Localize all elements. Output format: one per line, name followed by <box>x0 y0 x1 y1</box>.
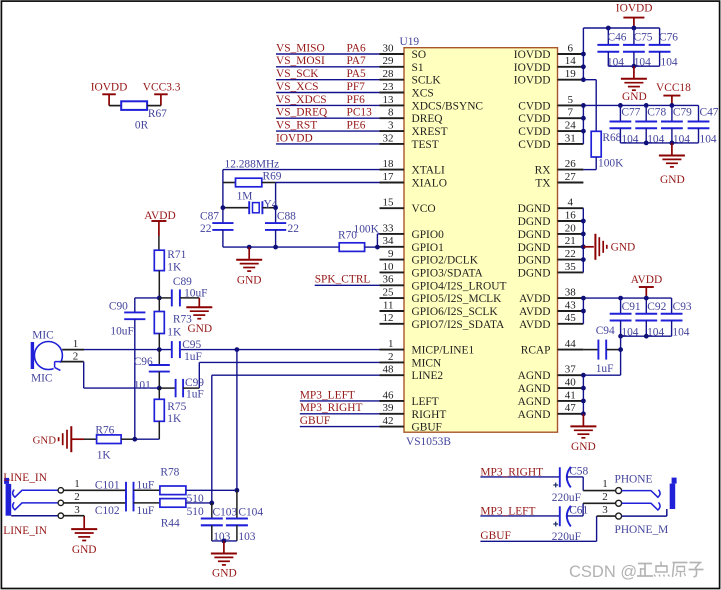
svg-text:100K: 100K <box>598 158 624 170</box>
svg-text:100K: 100K <box>354 224 380 236</box>
junction DGND row 15 <box>581 244 586 249</box>
svg-text:3: 3 <box>602 504 608 516</box>
svg-text:GPIO5/I2S_MCLK: GPIO5/I2S_MCLK <box>412 293 503 305</box>
wire MICN to chip <box>199 362 379 388</box>
svg-text:46: 46 <box>383 389 395 401</box>
svg-text:R68: R68 <box>602 132 621 144</box>
pin 1 LINE_IN <box>58 478 126 493</box>
svg-text:VCO: VCO <box>412 203 436 215</box>
svg-text:10: 10 <box>383 261 395 273</box>
pin 44 RCAP (right) <box>521 338 584 357</box>
pin 9 GPIO2/DCLK (left) <box>380 248 479 267</box>
svg-text:C90: C90 <box>109 301 128 313</box>
wire AVDD cap ground rail <box>621 335 672 337</box>
wire MICN from mic pin2 <box>84 362 160 389</box>
svg-text:IOVDD: IOVDD <box>276 132 313 144</box>
svg-text:C92: C92 <box>647 301 666 313</box>
svg-text:VS_XCS: VS_XCS <box>276 81 318 93</box>
svg-text:GND: GND <box>660 174 685 186</box>
svg-text:1: 1 <box>74 478 80 490</box>
resistor R67 <box>109 101 167 131</box>
wire GBUF to phone pin3 <box>597 516 616 541</box>
pin 10 GPIO3/SDATA (left) <box>380 261 484 280</box>
svg-text:IOVDD: IOVDD <box>514 75 551 87</box>
svg-text:XIALO: XIALO <box>412 178 447 190</box>
svg-text:GND: GND <box>72 544 97 556</box>
ground CVDD caps <box>659 143 685 186</box>
svg-text:MIC: MIC <box>32 330 54 342</box>
capacitor C77 <box>610 105 641 145</box>
svg-text:37: 37 <box>565 364 577 376</box>
capacitor C61 (polarized) <box>552 505 589 543</box>
pin 27 TX (right) <box>535 171 583 190</box>
capacitor C88 <box>265 210 299 247</box>
svg-text:33: 33 <box>383 222 395 234</box>
power port AVDD (right) <box>631 274 662 298</box>
wire / net label MP3_RIGHT (phone) <box>480 466 559 478</box>
svg-text:C95: C95 <box>182 339 201 351</box>
svg-text:2: 2 <box>602 491 608 503</box>
svg-text:38: 38 <box>565 287 577 299</box>
wire DGND bus <box>582 208 584 272</box>
svg-text:S1: S1 <box>412 62 424 74</box>
svg-text:GPIO0: GPIO0 <box>412 229 445 241</box>
pin 13 XDCS/BSYNC (left) <box>380 94 484 113</box>
junction AVDD pin38 <box>581 296 586 301</box>
svg-text:RIGHT: RIGHT <box>412 409 447 421</box>
pin 29 S1 (left) <box>380 55 424 74</box>
junction DGND row 16 <box>581 257 586 262</box>
svg-text:45: 45 <box>565 312 577 324</box>
resistor R70 <box>338 224 380 252</box>
wire C58 to phone pin1 <box>567 477 616 491</box>
svg-text:C75: C75 <box>634 31 653 43</box>
crystal Y4 <box>223 199 278 215</box>
svg-text:14: 14 <box>565 55 577 67</box>
pin 33 GPIO0 (left) <box>380 222 445 241</box>
pin 46 LEFT (left) <box>380 389 439 408</box>
svg-text:XCS: XCS <box>412 88 434 100</box>
svg-text:GND: GND <box>622 91 647 103</box>
svg-text:8: 8 <box>388 107 394 119</box>
wire / net label SPK_CTRL <box>315 274 380 286</box>
capacitor C102 <box>95 494 160 517</box>
svg-text:AVDD: AVDD <box>519 319 550 331</box>
svg-text:CVDD: CVDD <box>518 100 550 112</box>
pin 22 DGND (right) <box>518 248 584 267</box>
svg-text:42: 42 <box>383 415 394 427</box>
pin 26 RX (right) <box>535 158 584 177</box>
junction CVDD pin5 <box>581 103 586 108</box>
junction IOVDD pin19 <box>581 77 586 82</box>
junction CVDD pin24 <box>581 129 586 134</box>
junction cap rail C79 bottom <box>670 141 675 146</box>
svg-text:C104: C104 <box>238 507 263 519</box>
junction crystal rail C88 <box>273 245 278 250</box>
junction DGND row 14 <box>581 232 586 237</box>
capacitor C87 <box>200 210 234 247</box>
wire CVDD rail <box>583 105 698 143</box>
pin 34 GPIO1 (left) <box>380 235 445 254</box>
svg-text:1K: 1K <box>167 413 182 425</box>
svg-text:510: 510 <box>187 506 204 518</box>
svg-text:1uF: 1uF <box>184 351 202 363</box>
junction AGND row 25 <box>581 373 586 378</box>
svg-text:GND: GND <box>571 441 596 453</box>
svg-text:VS_SCK: VS_SCK <box>276 68 319 80</box>
ground C89 <box>186 298 212 335</box>
U19 designator <box>400 36 420 48</box>
svg-text:VS_XDCS: VS_XDCS <box>276 94 327 106</box>
svg-text:DGND: DGND <box>518 267 551 279</box>
pin 16 DGND (right) <box>518 209 584 228</box>
svg-text:VS1053B: VS1053B <box>406 436 451 448</box>
junction MICN node <box>157 386 162 391</box>
svg-text:CVDD: CVDD <box>518 126 550 138</box>
svg-text:VS_MISO: VS_MISO <box>276 42 325 54</box>
svg-text:PHONE_M: PHONE_M <box>615 524 669 536</box>
svg-text:GPIO7/I2S_SDATA: GPIO7/I2S_SDATA <box>412 319 506 331</box>
svg-text:5: 5 <box>568 94 574 106</box>
svg-text:XREST: XREST <box>412 126 448 138</box>
svg-text:AGND: AGND <box>518 383 551 395</box>
capacitor C94 <box>583 325 620 375</box>
svg-text:12.288MHz: 12.288MHz <box>225 159 280 171</box>
svg-text:3: 3 <box>74 504 80 516</box>
junction line2 branch <box>209 501 214 506</box>
pin 2 LINE_IN <box>58 491 126 506</box>
wire MICP from mic <box>84 349 380 351</box>
svg-text:MIC: MIC <box>31 373 53 385</box>
svg-text:R75: R75 <box>167 401 186 413</box>
svg-text:IOVDD: IOVDD <box>514 49 551 61</box>
pin 2 MIC <box>61 350 84 362</box>
capacitor C78 <box>635 105 666 145</box>
svg-text:GPIO3/SDATA: GPIO3/SDATA <box>412 267 484 279</box>
svg-text:SPK_CTRL: SPK_CTRL <box>315 274 371 286</box>
ground line filter <box>211 541 237 580</box>
svg-text:1: 1 <box>388 338 394 350</box>
svg-text:RX: RX <box>535 165 552 177</box>
svg-text:AVDD: AVDD <box>519 306 550 318</box>
svg-text:PA7: PA7 <box>347 55 367 67</box>
resistor R75 <box>154 388 186 439</box>
svg-text:XDCS/BSYNC: XDCS/BSYNC <box>412 100 484 112</box>
svg-text:RCAP: RCAP <box>521 345 551 357</box>
pin 41 AGND (right) <box>518 389 584 408</box>
pin 38 AVDD (right) <box>519 287 583 306</box>
wire IOVDD cap ground rail <box>608 65 659 67</box>
svg-text:GND: GND <box>611 241 636 253</box>
capacitor C92 <box>635 298 666 338</box>
svg-text:40: 40 <box>565 377 577 389</box>
svg-text:C89: C89 <box>173 276 192 288</box>
svg-text:C46: C46 <box>608 31 627 43</box>
svg-text:MP3_LEFT: MP3_LEFT <box>300 389 355 401</box>
svg-text:DGND: DGND <box>518 216 551 228</box>
pin 32 TEST (left) <box>380 132 439 151</box>
junction rail C46 <box>606 26 611 31</box>
svg-text:2: 2 <box>388 351 394 363</box>
svg-text:MICP/LINE1: MICP/LINE1 <box>412 345 475 357</box>
wire R68 to RX <box>583 157 596 170</box>
svg-text:AVDD: AVDD <box>631 274 662 286</box>
junction crystal left <box>221 205 226 210</box>
resistor R71 <box>154 249 186 274</box>
svg-text:VS_MOSI: VS_MOSI <box>276 55 325 67</box>
svg-text:101: 101 <box>134 379 151 391</box>
svg-text:C103: C103 <box>213 507 238 519</box>
svg-text:LINE_IN: LINE_IN <box>3 525 47 537</box>
wire node to C90 <box>135 297 160 299</box>
svg-text:SO: SO <box>412 49 427 61</box>
junction AVDD pin43 <box>581 309 586 314</box>
svg-text:GND: GND <box>33 435 57 447</box>
svg-text:22: 22 <box>288 223 300 235</box>
wire AVDD rail <box>583 298 671 324</box>
svg-text:1K: 1K <box>167 326 182 338</box>
svg-text:1K: 1K <box>167 261 182 273</box>
svg-text:GBUF: GBUF <box>300 415 330 427</box>
resistor R44 <box>160 499 204 530</box>
pin 48 LINE2 (left) <box>380 364 444 383</box>
wire / net label VS_MISO <box>276 42 380 54</box>
svg-text:LINE_IN: LINE_IN <box>3 472 47 484</box>
junction MICP at R73/C95 <box>157 347 162 352</box>
wire XTALI net <box>223 169 380 171</box>
svg-text:3: 3 <box>388 120 394 132</box>
pin 37 AGND (right) <box>518 364 584 383</box>
svg-text:15: 15 <box>383 197 395 209</box>
wire / net label VS_DREQ <box>276 107 380 119</box>
pin 15 VCO (left) <box>380 197 436 216</box>
pin 39 RIGHT (left) <box>380 402 447 421</box>
svg-text:PE6: PE6 <box>347 120 366 132</box>
pin 35 DGND (right) <box>518 261 584 280</box>
svg-text:35: 35 <box>565 261 577 273</box>
IC U19 VS1053B body <box>404 48 558 433</box>
wire R76 to R75 <box>135 438 160 440</box>
capacitor C76 <box>649 28 679 68</box>
junction IOVDD pin6 <box>581 52 586 57</box>
svg-text:C96: C96 <box>134 356 153 368</box>
svg-text:C76: C76 <box>659 31 678 43</box>
capacitor C90 <box>109 298 145 439</box>
svg-text:R67: R67 <box>148 108 167 120</box>
svg-text:GPIO6/I2S_SCLK: GPIO6/I2S_SCLK <box>412 306 499 318</box>
svg-text:MP3_RIGHT: MP3_RIGHT <box>300 402 363 414</box>
svg-text:GND: GND <box>237 274 262 286</box>
ground crystal <box>236 247 262 286</box>
wire / net label MP3_RIGHT <box>300 402 380 414</box>
svg-text:104: 104 <box>661 56 678 68</box>
svg-text:13: 13 <box>383 94 395 106</box>
wire AGND bus <box>583 375 620 414</box>
svg-text:CSDN @: CSDN @ <box>569 563 637 581</box>
junction rail C78 <box>644 103 649 108</box>
pin 1 PHONE <box>602 478 621 493</box>
capacitor C75 <box>623 28 653 68</box>
svg-text:11: 11 <box>383 299 394 311</box>
svg-text:SCLK: SCLK <box>412 75 442 87</box>
svg-text:39: 39 <box>383 402 395 414</box>
wire AVDD to R71 <box>158 236 160 250</box>
pin 47 AGND (right) <box>518 402 584 421</box>
pin 42 GBUF (left) <box>380 415 442 434</box>
ground LINE_IN pin3 <box>71 516 97 557</box>
svg-text:10uF: 10uF <box>184 287 207 299</box>
svg-text:4: 4 <box>568 197 574 209</box>
svg-text:10uF: 10uF <box>110 326 133 338</box>
svg-text:16: 16 <box>565 209 577 221</box>
junction AVDD cap rail C92 bottom <box>644 334 649 339</box>
svg-text:19: 19 <box>565 68 577 80</box>
pin 21 DGND (right) <box>518 235 584 254</box>
VS1053B value label <box>406 436 451 448</box>
pin 23 XCS (left) <box>380 81 434 100</box>
pin 25 GPIO5/I2S_MCLK (left) <box>380 287 503 306</box>
svg-text:26: 26 <box>565 158 577 170</box>
svg-text:34: 34 <box>383 235 395 247</box>
svg-text:CVDD: CVDD <box>518 113 550 125</box>
wire IOVDD pin19 to R68 <box>583 80 596 132</box>
junction rail C75 <box>632 26 637 31</box>
pin 6 IOVDD (right) <box>514 42 584 61</box>
svg-text:R78: R78 <box>160 466 179 478</box>
svg-text:VCC3.3: VCC3.3 <box>143 82 181 94</box>
svg-text:18: 18 <box>383 158 395 170</box>
svg-text:C78: C78 <box>647 107 666 119</box>
junction rail C77 <box>618 103 623 108</box>
svg-text:1uF: 1uF <box>596 363 614 375</box>
svg-text:1: 1 <box>602 478 608 490</box>
svg-text:U19: U19 <box>400 36 420 48</box>
svg-text:IOVDD: IOVDD <box>514 62 551 74</box>
wire / net label VS_RST <box>276 120 380 132</box>
svg-text:DGND: DGND <box>518 255 551 267</box>
svg-text:22: 22 <box>565 248 576 260</box>
pin 4 DGND (right) <box>518 197 584 216</box>
pin 43 AVDD (right) <box>519 299 583 318</box>
capacitor C103 <box>201 503 238 543</box>
wire / net label VS_XCS <box>276 81 380 93</box>
svg-text:30: 30 <box>383 42 395 54</box>
wire C61 to phone pin2 <box>567 503 616 516</box>
svg-text:R73: R73 <box>173 314 192 326</box>
svg-text:MP3_LEFT: MP3_LEFT <box>480 505 535 517</box>
wire caps to RCAP/AGND <box>620 336 622 375</box>
svg-text:DREQ: DREQ <box>412 113 444 125</box>
node PHONE_M label <box>615 524 669 536</box>
capacitor C58 (polarized) <box>552 466 589 504</box>
svg-text:2: 2 <box>73 350 79 362</box>
svg-text:R71: R71 <box>167 249 186 261</box>
svg-text:C47: C47 <box>700 107 719 119</box>
wire right vertical crystal net <box>275 183 277 224</box>
pin 3 LINE_IN <box>58 504 84 519</box>
pin 2 MICN (left) <box>380 351 442 370</box>
junction AGND row 28 <box>581 411 586 416</box>
svg-text:TEST: TEST <box>412 139 439 151</box>
power port IOVDD (top right) <box>616 3 653 28</box>
junction AVDD cap rail C91 bottom <box>618 334 623 339</box>
capacitor C46 <box>597 28 626 68</box>
pin 28 SCLK (left) <box>380 68 442 87</box>
wire / net label GBUF <box>300 415 380 427</box>
pin 5 CVDD (right) <box>518 94 583 113</box>
svg-text:PA6: PA6 <box>347 42 367 54</box>
pin 8 DREQ (left) <box>380 107 444 126</box>
node PHONE label <box>615 474 653 486</box>
svg-text:IOVDD: IOVDD <box>616 3 653 15</box>
ground mic bias (left) <box>33 426 97 452</box>
capacitor C79 <box>661 105 692 145</box>
svg-text:21: 21 <box>565 235 576 247</box>
resistor R69 <box>223 170 282 202</box>
svg-text:GBUF: GBUF <box>412 422 442 434</box>
pin 12 GPIO7/I2S_SDATA (left) <box>380 312 506 331</box>
wire / net label GBUF (phone) <box>480 530 596 542</box>
pin 31 CVDD (right) <box>518 132 583 151</box>
svg-text:1uF: 1uF <box>137 505 155 517</box>
svg-text:AGND: AGND <box>518 409 551 421</box>
junction CVDD pin7 <box>581 116 586 121</box>
pin 3 PHONE <box>602 504 621 519</box>
resistor R73 <box>154 298 192 350</box>
svg-text:6: 6 <box>568 42 574 54</box>
wire R44 to LINE2 branch <box>186 502 212 504</box>
svg-text:LINE2: LINE2 <box>412 370 444 382</box>
svg-text:CVDD: CVDD <box>518 139 550 151</box>
svg-text:C77: C77 <box>621 107 640 119</box>
svg-text:24: 24 <box>565 120 577 132</box>
pin 2 PHONE <box>602 491 621 506</box>
svg-text:AGND: AGND <box>518 396 551 408</box>
svg-text:43: 43 <box>565 299 577 311</box>
junction RCAP node <box>618 347 623 352</box>
svg-text:25: 25 <box>383 287 395 299</box>
wire R71 to node <box>158 271 160 298</box>
pin 20 DGND (right) <box>518 222 584 241</box>
svg-text:C99: C99 <box>185 377 204 389</box>
wire LINE2 to chip <box>212 375 380 503</box>
ground IOVDD caps <box>621 66 647 103</box>
wire R78 to MICP branch <box>186 350 237 491</box>
wire GPIO0-GPIO1 link <box>377 234 379 247</box>
svg-text:GBUF: GBUF <box>480 530 510 542</box>
connector LINE_IN jack <box>3 472 58 537</box>
svg-text:MICN: MICN <box>412 357 442 369</box>
svg-text:20: 20 <box>565 222 577 234</box>
svg-text:C91: C91 <box>622 301 641 313</box>
pin 24 CVDD (right) <box>518 120 583 139</box>
svg-text:PF6: PF6 <box>347 94 366 106</box>
svg-text:0R: 0R <box>135 120 149 132</box>
wire / net label MP3_LEFT (phone) <box>480 505 559 517</box>
svg-text:27: 27 <box>565 171 577 183</box>
power port VCC3.3 <box>143 82 181 106</box>
capacitor C93 <box>661 298 692 338</box>
svg-text:29: 29 <box>383 55 395 67</box>
pin 17 XIALO (left) <box>380 171 447 190</box>
wire left vertical crystal net <box>222 170 224 224</box>
wire IOVDD rail <box>583 28 659 80</box>
svg-text:C102: C102 <box>95 505 120 517</box>
svg-text:C101: C101 <box>95 480 120 492</box>
svg-text:R44: R44 <box>161 518 180 530</box>
svg-text:C79: C79 <box>673 107 692 119</box>
svg-text:12: 12 <box>383 312 394 324</box>
